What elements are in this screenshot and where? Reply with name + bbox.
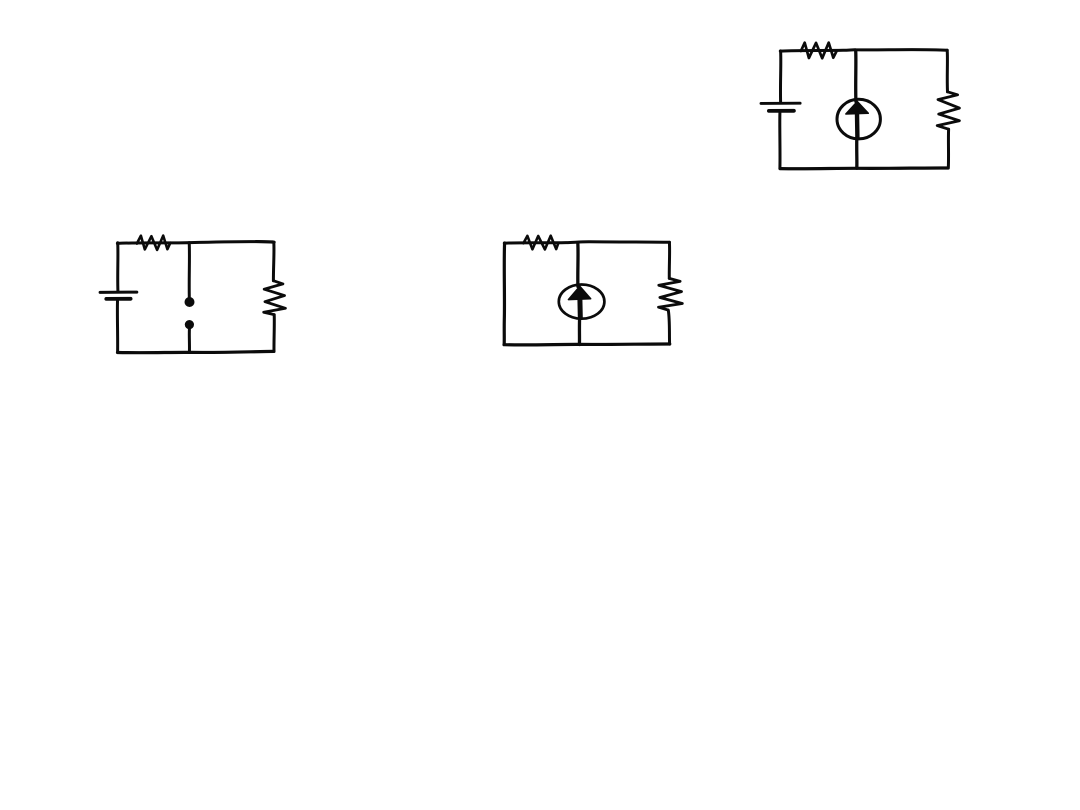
battery V1 [100,292,137,299]
wire right lower circuit 3 [947,129,950,168]
wire right lower circuit 2 [668,310,669,344]
wire overdraw near top-right corner circuit 1 [256,240,273,243]
current source I2 [837,99,880,139]
wire left upper circuit 3 [779,51,782,102]
wire right upper circuit 1 [272,242,276,281]
wire right upper circuit 2 [668,242,671,278]
wire left side circuit 2 [503,243,507,344]
current source I1 [559,285,605,319]
resistor R5 [801,43,837,59]
wire middle branch upper circuit 1 [188,243,191,297]
wire middle branch lower circuit 2 [578,318,581,345]
wire right lower circuit 1 [272,315,275,352]
resistor R3 [523,236,558,250]
wire middle branch upper circuit 2 [576,243,580,287]
terminal node a [185,297,195,307]
resistor R4 [659,278,683,310]
resistor R1 [137,236,171,250]
battery V2 [761,103,800,111]
wire top rail circuit 2 [504,242,669,243]
wire left upper circuit 1 [116,243,119,291]
resistor R6 [937,92,959,129]
wire bottom rail circuit 1 [118,351,274,352]
wire left lower circuit 1 [116,301,119,352]
wire left lower circuit 3 [778,113,781,168]
wire right upper circuit 3 [946,50,949,92]
wire middle branch lower circuit 3 [855,138,858,168]
wire top rail circuit 3 [780,50,947,52]
wire bottom rail circuit 2 [504,342,670,346]
wire middle branch upper circuit 3 [854,50,858,101]
wire middle branch lower circuit 1 [188,329,191,352]
wire top rail circuit 1 [117,242,274,244]
terminal node b [185,320,194,329]
resistor R2 [264,281,286,315]
wire bottom rail circuit 3 [780,166,948,170]
